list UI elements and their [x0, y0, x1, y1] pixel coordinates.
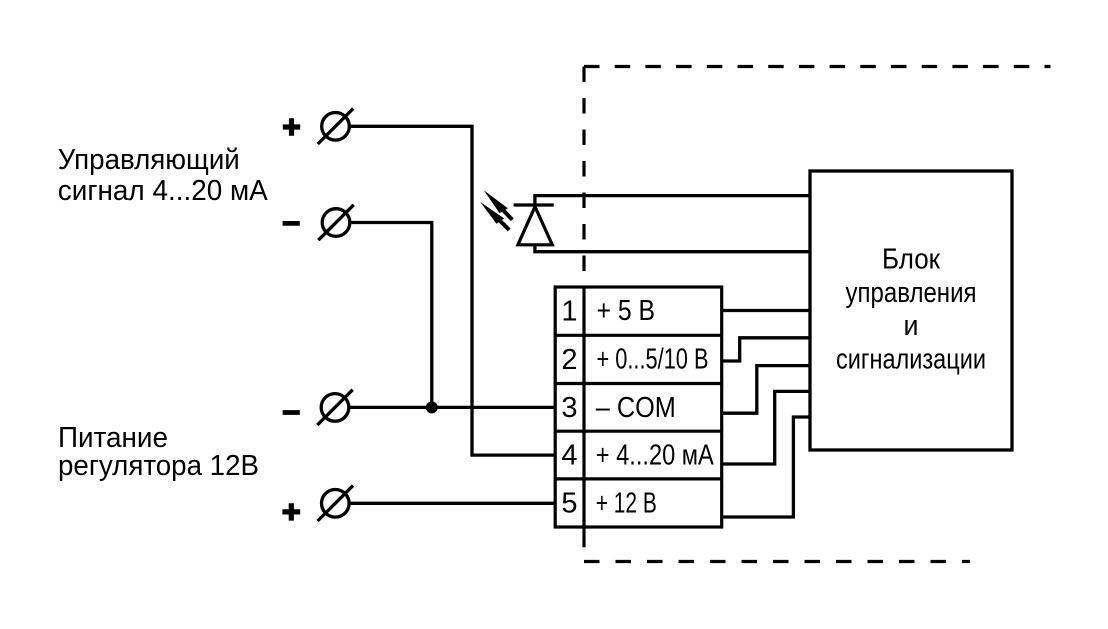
control unit box U2 [810, 171, 1012, 450]
wire: pin 5 to control unit [721, 417, 810, 517]
svg-text:4: 4 [561, 440, 577, 472]
wire: terminal X1 to pin 4 (via right and down) [349, 126, 556, 455]
terminal X1 (+ control signal) [318, 109, 353, 144]
control unit label: Блок управления и сигнализации [836, 243, 986, 375]
svg-text:Блок: Блок [882, 243, 940, 275]
svg-text:управления: управления [846, 277, 977, 309]
svg-text:– COM: – COM [596, 392, 676, 424]
svg-text:+ 12 В: + 12 В [596, 488, 657, 520]
dashed enclosure frame left edge (lower part) [582, 527, 585, 562]
terminal block X5 outline [555, 287, 722, 527]
plus sign at terminal X1 [283, 118, 300, 135]
svg-text:и: и [904, 310, 919, 342]
plus sign at terminal X4 [282, 503, 300, 520]
minus sign at terminal X3 [283, 410, 300, 415]
wire: photodiode anode to control unit (bottom) [535, 245, 810, 252]
wire: terminal X4 to pin 5 [349, 502, 556, 505]
terminal X3 (- supply) [317, 390, 352, 425]
svg-text:регулятора 12В: регулятора 12В [58, 450, 259, 482]
photodiode U1 light arrow 1 [484, 190, 513, 220]
terminal X4 (+ supply 12V) [318, 486, 353, 521]
terminal block divider (pin column) [582, 287, 585, 527]
wire: terminal X3 to pin 3 [349, 406, 556, 409]
terminal block row divider 4/5 [555, 477, 722, 480]
svg-text:Управляющий: Управляющий [58, 144, 240, 176]
wire: terminal X2 down to junction [350, 223, 432, 408]
wire: pin 1 to control unit [721, 309, 810, 312]
dashed enclosure frame left edge (upper part) [582, 67, 585, 291]
terminal X2 (- control signal) [318, 205, 353, 240]
wire: pin 4 to control unit [721, 391, 810, 464]
wire: photodiode cathode to control unit (top) [535, 196, 810, 205]
svg-text:5: 5 [561, 488, 577, 520]
photodiode U1 cathode bar [514, 203, 554, 206]
wire: pin 3 to control unit [721, 366, 810, 414]
svg-text:+ 0...5/10 В: + 0...5/10 В [597, 344, 709, 376]
terminal block row divider 3/4 [555, 430, 722, 433]
wire: pin 2 to control unit [721, 338, 810, 361]
dashed enclosure frame (device boundary) top edge [584, 65, 1051, 68]
junction node (X2/X3 common) [426, 401, 438, 413]
svg-text:сигнализации: сигнализации [836, 344, 986, 376]
terminal block row divider 2/3 [555, 382, 722, 385]
dashed enclosure frame bottom edge [584, 560, 970, 563]
svg-text:2: 2 [561, 344, 577, 376]
label: Управляющий сигнал 4...20 мА [58, 144, 269, 207]
terminal block row divider 1/2 [555, 334, 722, 337]
svg-text:3: 3 [561, 392, 577, 424]
svg-text:+ 5 В: + 5 В [597, 295, 656, 327]
minus sign at terminal X2 [283, 221, 300, 226]
svg-text:+ 4...20 мА: + 4...20 мА [596, 440, 715, 472]
svg-text:1: 1 [561, 296, 577, 328]
svg-text:сигнал 4...20 мА: сигнал 4...20 мА [58, 175, 269, 207]
label: Питание регулятора 12В [58, 422, 259, 482]
photodiode U1 triangle [518, 207, 552, 245]
photodiode U1 light arrow 2 [480, 202, 509, 230]
